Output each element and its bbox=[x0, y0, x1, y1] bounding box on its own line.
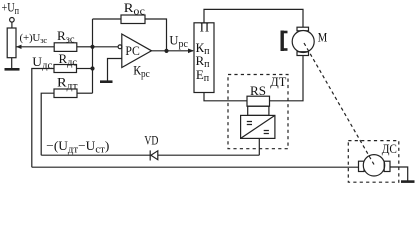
DS left brush bbox=[359, 161, 365, 171]
resistor Rzs bbox=[54, 43, 77, 52]
dashed box DT bbox=[228, 75, 288, 149]
resistor Roc bbox=[121, 15, 145, 24]
ground (op-amp) bbox=[100, 80, 113, 83]
dashed coupling motor to DS bbox=[304, 43, 374, 165]
DT converter box bbox=[241, 115, 275, 138]
op-amp PC triangle bbox=[122, 34, 152, 68]
wire Roc left lead bbox=[93, 18, 122, 20]
DS right brush bbox=[384, 161, 390, 171]
svg-text:ДС: ДС bbox=[382, 142, 397, 156]
wire terminal to potentiometer bbox=[11, 22, 13, 28]
wire bus to op-amp inverting input bbox=[93, 46, 119, 48]
wire DS right to ground bbox=[390, 167, 408, 181]
svg-text:+Uп: +Uп bbox=[2, 1, 20, 18]
svg-text:(+)Uзс: (+)Uзс bbox=[20, 32, 48, 45]
wire Uds down-left of Rds bbox=[32, 69, 54, 168]
resistor Rdt bbox=[54, 89, 77, 98]
wire summing bus bbox=[92, 19, 94, 93]
motor field bracket bbox=[281, 31, 284, 52]
svg-text:РС: РС bbox=[125, 44, 139, 58]
DT converter eq top-left bbox=[247, 122, 252, 125]
motor top brush bbox=[297, 27, 309, 31]
shunt RS block bbox=[247, 96, 270, 106]
arrowhead into P block bbox=[188, 49, 194, 54]
svg-text:Крс: Крс bbox=[133, 63, 150, 80]
wire outer rail bbox=[32, 166, 359, 168]
wire P top to motor top bbox=[204, 9, 303, 27]
node bus-Rds junction bbox=[90, 66, 94, 70]
wire P bottom to RS bbox=[204, 93, 247, 101]
wire Rdt left lead down bbox=[41, 93, 54, 155]
wire Rzs to bus bbox=[77, 46, 93, 48]
wiper arrow bbox=[16, 45, 22, 49]
ground (left) bbox=[5, 68, 20, 71]
DT converter diagonal bbox=[241, 115, 275, 138]
dashed box DS bbox=[348, 141, 399, 183]
motor M circle bbox=[292, 31, 314, 53]
wire op-amp output bbox=[152, 50, 194, 52]
wire Rds to bus bbox=[77, 68, 93, 70]
resistor Rds bbox=[54, 65, 77, 73]
svg-text:Rдс: Rдс bbox=[59, 52, 78, 69]
inverting input circle bbox=[118, 45, 122, 49]
svg-text:Uрс: Uрс bbox=[169, 34, 188, 51]
wire converter output down bbox=[258, 138, 260, 155]
motor bottom brush bbox=[297, 52, 309, 56]
wire Roc right lead bbox=[145, 19, 167, 51]
node output-feedback junction bbox=[164, 49, 168, 53]
wire non-inverting input bbox=[108, 59, 122, 81]
converter block P bbox=[194, 23, 214, 93]
wire inner rail left segment bbox=[41, 154, 150, 156]
svg-text:−(Uдт−Uст): −(Uдт−Uст) bbox=[46, 138, 109, 156]
wire inner rail right segment bbox=[158, 154, 259, 156]
wire potentiometer to ground bbox=[11, 58, 13, 69]
svg-text:VD: VD bbox=[144, 134, 158, 148]
wire motor bottom down bbox=[270, 56, 304, 101]
potentiometer RP bbox=[7, 28, 16, 58]
DT converter eq bottom-right bbox=[264, 131, 269, 134]
svg-text:ДТ: ДТ bbox=[270, 75, 286, 89]
wire Rdt to bus bbox=[77, 92, 93, 94]
terminal +Up bbox=[10, 18, 15, 23]
node bus-Rzs junction bbox=[90, 45, 94, 49]
ground (DS) bbox=[401, 180, 415, 183]
DS circle bbox=[363, 155, 384, 176]
shunt neck bbox=[248, 106, 269, 115]
svg-text:М: М bbox=[318, 31, 328, 45]
wire wiper to Rzs bbox=[16, 46, 54, 48]
